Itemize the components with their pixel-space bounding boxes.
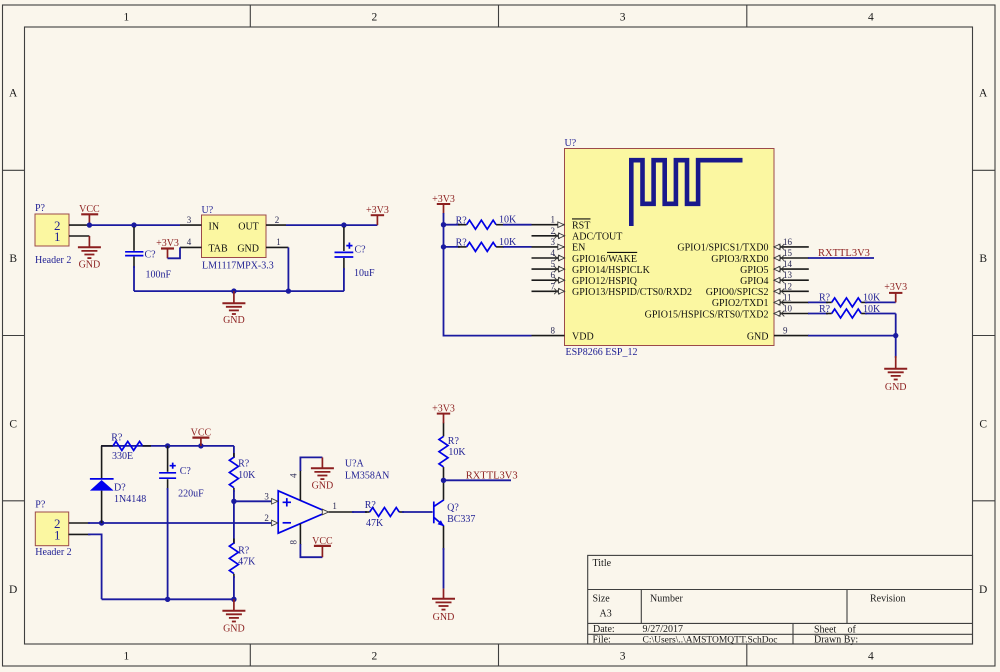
svg-text:C: C (9, 419, 17, 431)
power port +3V3 (GPIO2 pull-up) (884, 282, 907, 302)
wire ground rail (sense circuit) (102, 598, 234, 600)
svg-text:11: 11 (783, 292, 792, 302)
capacitor C? 10uF (polarized) (335, 227, 376, 279)
svg-text:10K: 10K (448, 447, 466, 458)
svg-text:D?: D? (114, 483, 126, 494)
junction 220uF node (bottom) (165, 597, 170, 602)
svg-text:C?: C? (355, 244, 367, 255)
svg-text:3: 3 (264, 492, 269, 502)
pin 13 GPIO4 (740, 270, 809, 287)
wire C? 10uF to ground rail (343, 268, 345, 291)
svg-text:GND: GND (312, 480, 334, 491)
svg-text:RST: RST (572, 221, 590, 232)
svg-text:8: 8 (289, 540, 299, 545)
pin 8 VDD (532, 326, 594, 343)
junction EN pull-up node (441, 244, 446, 249)
pin 4 GPIO16/WAKE (532, 248, 638, 265)
connector P? Header 2 (sense input) (35, 500, 90, 558)
svg-text:GND: GND (433, 612, 455, 623)
power port VCC (op-amp pin 8) (312, 536, 333, 557)
power port VCC (input) (79, 204, 100, 225)
junction C? 100nF node (131, 222, 136, 227)
svg-text:TAB: TAB (209, 244, 229, 255)
svg-text:U?: U? (202, 205, 214, 216)
svg-text:GPIO13/HSPID/CTS0/RXD2: GPIO13/HSPID/CTS0/RXD2 (572, 287, 692, 298)
resistor R? 10K (divider top) (229, 446, 256, 501)
svg-text:4: 4 (551, 248, 556, 258)
wire TAB jog (168, 247, 181, 258)
svg-text:Title: Title (593, 558, 612, 569)
resistor R? 10K (GPIO2 pull-up) (808, 292, 896, 307)
svg-text:D: D (979, 584, 987, 596)
svg-text:P?: P? (35, 203, 46, 214)
junction regulator GND node (286, 288, 291, 293)
svg-text:1: 1 (124, 650, 130, 662)
svg-text:5: 5 (551, 259, 556, 269)
svg-text:2: 2 (372, 650, 378, 662)
resistor R? 10K (RST pull-up) (444, 215, 532, 230)
svg-text:12: 12 (783, 281, 792, 291)
svg-text:Number: Number (650, 594, 683, 605)
svg-text:VCC: VCC (312, 536, 333, 547)
svg-text:R?: R? (819, 292, 831, 303)
svg-text:4: 4 (868, 650, 874, 662)
svg-text:C?: C? (145, 250, 157, 261)
svg-text:220uF: 220uF (178, 489, 204, 500)
svg-text:GND: GND (79, 259, 101, 270)
svg-text:3: 3 (187, 215, 192, 225)
op-amp pin 4 (V+) wire (289, 457, 323, 500)
svg-text:R?: R? (456, 238, 468, 249)
svg-text:100nF: 100nF (146, 269, 172, 280)
pin 12 GPIO0/SPICS2 (706, 281, 809, 298)
svg-text:10K: 10K (863, 304, 881, 315)
pin 9 GND (747, 326, 809, 343)
resistor R? 47K (base) (352, 500, 433, 529)
svg-text:15: 15 (783, 248, 793, 258)
svg-text:Q?: Q? (447, 503, 459, 514)
wire header pin 1 down to ground rail (88, 534, 102, 599)
svg-text:U?A: U?A (345, 459, 365, 470)
net label RXTTL3V3 (collector) (444, 470, 518, 481)
svg-text:GND: GND (747, 331, 769, 342)
connector P? Header 2 (power input) (35, 203, 89, 266)
svg-text:ESP8266 ESP_12: ESP8266 ESP_12 (566, 347, 638, 358)
ground GND (ESP) (884, 356, 907, 393)
svg-text:+3V3: +3V3 (884, 282, 907, 293)
svg-text:U?: U? (565, 138, 577, 149)
svg-text:GPIO3/RXD0: GPIO3/RXD0 (711, 254, 768, 265)
ground GND (sense circuit) (222, 599, 245, 634)
svg-text:C: C (979, 419, 987, 431)
svg-text:ADC/TOUT: ADC/TOUT (572, 232, 622, 243)
svg-text:R?: R? (111, 432, 123, 443)
svg-text:10K: 10K (499, 215, 517, 226)
wire divider top rail (102, 445, 234, 447)
svg-text:4: 4 (868, 11, 874, 23)
svg-text:Revision: Revision (870, 594, 906, 605)
op-amp pin 8 (V-) wire (289, 524, 323, 558)
junction ground stub node (231, 288, 236, 293)
svg-text:GPIO1/SPICS1/TXD0: GPIO1/SPICS1/TXD0 (677, 243, 768, 254)
resistor R? 10K (collector pull-up) (439, 423, 466, 481)
svg-text:6: 6 (551, 270, 556, 280)
svg-text:1: 1 (332, 501, 337, 511)
svg-text:9: 9 (783, 326, 788, 336)
svg-text:GND: GND (223, 624, 245, 635)
wire GPIO15 resistor to ground (895, 314, 897, 358)
svg-text:8: 8 (551, 326, 556, 336)
capacitor C? 100nF (125, 227, 171, 280)
pin 7 GPIO13/HSPID/CTS0/RXD2 (532, 281, 693, 298)
svg-text:D: D (9, 584, 17, 596)
svg-text:GND: GND (237, 244, 259, 255)
wire VCC rail to regulator (89, 224, 180, 226)
ground GND (regulator) (222, 291, 245, 326)
title block (588, 555, 973, 645)
resistor R? 47K (divider bottom) (229, 501, 256, 599)
svg-text:GPIO14/HSPICLK: GPIO14/HSPICLK (572, 265, 651, 276)
power port +3V3 (collector pull-up) (432, 404, 455, 424)
svg-text:A: A (979, 88, 988, 100)
svg-text:File:: File: (593, 635, 611, 646)
svg-text:R?: R? (238, 545, 250, 556)
svg-text:GND: GND (885, 382, 907, 393)
svg-text:GPIO0/SPICS2: GPIO0/SPICS2 (706, 287, 769, 298)
junction ground rail node (231, 597, 236, 602)
svg-text:4: 4 (289, 473, 299, 478)
pin 14 GPIO5 (740, 259, 809, 276)
svg-text:10K: 10K (499, 237, 517, 248)
junction VCC node (198, 443, 203, 448)
svg-text:GPIO4: GPIO4 (740, 276, 768, 287)
svg-text:B: B (979, 253, 987, 265)
svg-text:13: 13 (783, 270, 793, 280)
pin 6 GPIO12/HSPIQ (532, 270, 638, 287)
svg-text:2: 2 (551, 226, 556, 236)
junction collector node (441, 478, 446, 483)
pin 3 EN (532, 237, 586, 254)
svg-text:3: 3 (551, 237, 556, 247)
svg-text:Size: Size (593, 594, 611, 605)
svg-text:VDD: VDD (572, 331, 594, 342)
op-amp output pin 1 (322, 501, 354, 515)
pin 16 GPIO1/SPICS1/TXD0 (677, 237, 808, 254)
svg-text:3: 3 (620, 650, 626, 662)
svg-text:1: 1 (54, 527, 61, 542)
pin 11 GPIO2/TXD1 (712, 292, 809, 309)
wire +3V3 bus to VDD (444, 213, 532, 336)
svg-text:R?: R? (819, 304, 831, 315)
power port VCC (op-amp rail) (191, 428, 212, 446)
svg-text:3: 3 (620, 11, 626, 23)
wire diode branch vertical (101, 446, 103, 523)
svg-text:47K: 47K (366, 518, 384, 529)
svg-text:VCC: VCC (79, 204, 100, 215)
pin 10 GPIO15/HSPICS/RTS0/TXD2 (645, 304, 809, 321)
transistor Q? BC337 (434, 481, 476, 550)
ground GND (header pin 1) (78, 236, 101, 270)
svg-text:Header 2: Header 2 (35, 547, 71, 558)
svg-text:1: 1 (276, 237, 281, 247)
svg-text:1: 1 (551, 215, 556, 225)
svg-text:B: B (9, 253, 17, 265)
power port +3V3 (ESP supply bus) (432, 194, 455, 214)
pin 2 ADC/TOUT (532, 226, 623, 243)
svg-text:RXTTL3V3: RXTTL3V3 (818, 248, 870, 259)
svg-text:A: A (9, 88, 18, 100)
wire emitter to ground (443, 548, 445, 589)
svg-text:Drawn By:: Drawn By: (814, 635, 858, 646)
wire divider node to op-amp non-inverting input (234, 500, 271, 502)
capacitor C? 220uF (polarized) (159, 446, 204, 500)
svg-text:1: 1 (124, 11, 130, 23)
svg-text:R?: R? (456, 215, 468, 226)
pin 1 RST (532, 215, 591, 232)
svg-text:BC337: BC337 (447, 514, 475, 525)
resistor R? 10K (GPIO15 pull-down) (808, 304, 896, 318)
svg-text:GPIO16/WAKE: GPIO16/WAKE (572, 254, 637, 265)
svg-text:P?: P? (35, 500, 46, 511)
junction diode branch node (99, 520, 104, 525)
junction RST pull-up node (441, 222, 446, 227)
wire C? 100nF to ground rail (133, 266, 135, 291)
svg-text:4: 4 (187, 237, 192, 247)
svg-text:RXTTL3V3: RXTTL3V3 (466, 470, 518, 481)
junction divider node (231, 499, 236, 504)
svg-text:1N4148: 1N4148 (114, 494, 146, 505)
svg-text:C?: C? (180, 466, 192, 477)
svg-text:R?: R? (238, 459, 250, 470)
svg-text:10K: 10K (238, 470, 256, 481)
IC U? ESP8266 ESP_12 body (565, 138, 775, 358)
junction 220uF node (top) (165, 443, 170, 448)
svg-text:10K: 10K (863, 292, 881, 303)
op-amp U?A LM358AN (264, 459, 389, 534)
svg-text:14: 14 (783, 259, 793, 269)
wire regulator GND pin down (287, 247, 289, 291)
svg-text:LM358AN: LM358AN (345, 471, 389, 482)
svg-text:EN: EN (572, 243, 585, 254)
svg-text:2: 2 (264, 513, 269, 523)
svg-text:10: 10 (783, 304, 793, 314)
resistor R? 10K (EN pull-up) (444, 237, 532, 252)
wire ESP GND pin (808, 335, 896, 337)
svg-text:OUT: OUT (238, 221, 259, 232)
power port +3V3 (regulator output) (366, 205, 389, 225)
diode D? 1N4148 (90, 479, 146, 505)
svg-text:2: 2 (275, 215, 280, 225)
svg-text:47K: 47K (238, 557, 256, 568)
net label RXTTL3V3 (GPIO3/RXD0) (808, 248, 874, 259)
wire header pin 2 to op-amp inverting input (88, 522, 271, 524)
svg-text:GPIO5: GPIO5 (740, 265, 768, 276)
svg-text:GPIO12/HSPIQ: GPIO12/HSPIQ (572, 276, 638, 287)
resistor R? 330E (101, 432, 151, 462)
svg-text:C:\Users\..\AMSTOMQTT.SchDoc: C:\Users\..\AMSTOMQTT.SchDoc (643, 636, 778, 646)
svg-text:VCC: VCC (191, 428, 212, 439)
svg-text:Header 2: Header 2 (35, 255, 71, 266)
svg-text:R?: R? (448, 436, 460, 447)
svg-text:7: 7 (551, 281, 556, 291)
svg-text:A3: A3 (600, 609, 612, 620)
svg-text:GND: GND (223, 315, 245, 326)
junction VCC node (87, 222, 92, 227)
svg-text:2: 2 (372, 11, 378, 23)
regulator U? LM1117MPX-3.3 (180, 205, 288, 271)
svg-text:Date:: Date: (593, 624, 615, 635)
antenna meander graphic (631, 160, 742, 226)
svg-text:16: 16 (783, 237, 793, 247)
power port +3V3 (TAB pin) (156, 238, 179, 258)
wire 220uF down to ground rail (167, 488, 169, 599)
wire ground rail (134, 290, 344, 292)
pin 15 GPIO3/RXD0 (711, 248, 809, 265)
junction C? 10uF node (341, 222, 346, 227)
svg-text:330E: 330E (112, 451, 133, 462)
ground GND (emitter) (432, 589, 455, 623)
wire OUT to +3V3 (286, 224, 377, 226)
junction ESP ground node (893, 333, 898, 338)
svg-text:R?: R? (365, 500, 377, 511)
svg-text:LM1117MPX-3.3: LM1117MPX-3.3 (202, 260, 274, 271)
pin 5 GPIO14/HSPICLK (532, 259, 651, 276)
ground GND (op-amp pin 4) (311, 457, 334, 491)
svg-text:1: 1 (54, 229, 61, 244)
svg-text:GPIO15/HSPICS/RTS0/TXD2: GPIO15/HSPICS/RTS0/TXD2 (645, 309, 769, 320)
svg-text:10uF: 10uF (354, 268, 375, 279)
svg-text:IN: IN (209, 221, 220, 232)
svg-text:9/27/2017: 9/27/2017 (643, 624, 684, 635)
svg-text:GPIO2/TXD1: GPIO2/TXD1 (712, 298, 769, 309)
